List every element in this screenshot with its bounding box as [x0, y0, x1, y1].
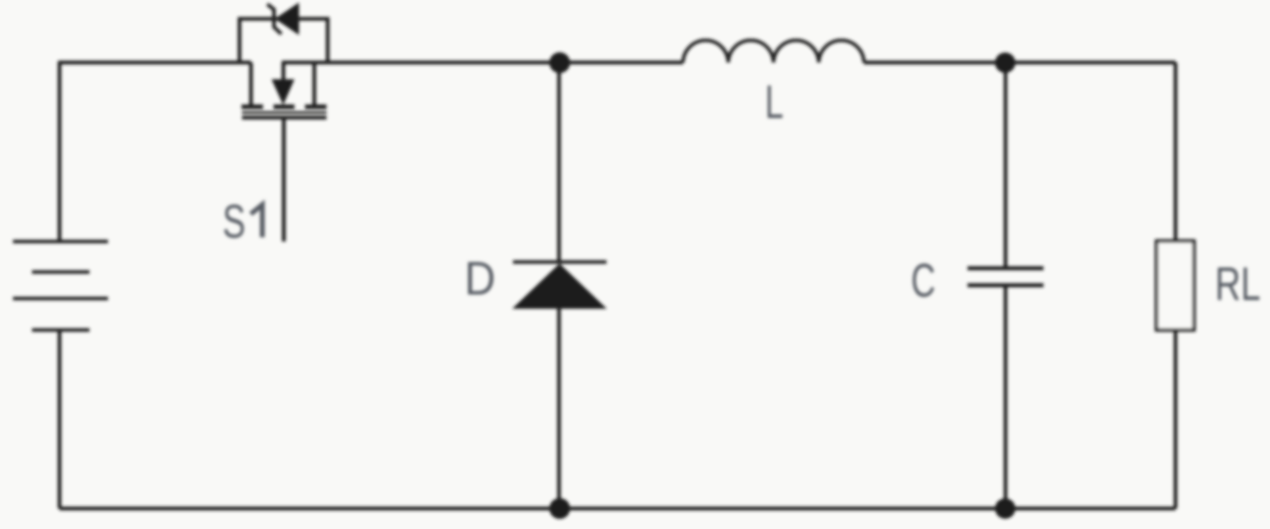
body diode D1 cathode bar	[267, 4, 281, 34]
body diode D1 triangle	[275, 3, 299, 36]
transistor Q1 drain stub	[249, 63, 253, 106]
resistor RL bottom lead wire	[1174, 330, 1178, 509]
resistor RL top lead wire	[1174, 63, 1178, 242]
battery V1 left lead wire	[58, 63, 62, 242]
inductor L coils	[683, 40, 864, 62]
node junction dot top right	[995, 53, 1015, 73]
svg-text:D: D	[465, 252, 496, 305]
body diode branch wire	[240, 19, 328, 63]
transistor Q1 contact bars	[242, 105, 327, 110]
battery V1 bottom lead wire	[58, 330, 62, 509]
transistor Q1 body lead wire	[282, 63, 286, 81]
node junction dot bottom right	[995, 498, 1015, 518]
transistor Q1 gate plate	[242, 116, 327, 120]
resistor RL body	[1157, 241, 1195, 330]
capacitor C plates	[968, 268, 1044, 285]
transistor Q1 source stub	[312, 63, 316, 106]
wire bottom rail	[60, 507, 1176, 511]
capacitor C bottom lead wire	[1004, 286, 1008, 509]
battery V1 plates	[13, 242, 108, 331]
diode D cathode bar	[513, 260, 607, 263]
diode D bottom lead wire	[557, 308, 561, 509]
transistor Q1 body arrow	[272, 79, 295, 105]
diode D triangle	[512, 264, 607, 309]
svg-text:C: C	[911, 254, 936, 307]
capacitor C top lead wire	[1004, 63, 1008, 269]
diode D top lead wire	[557, 63, 561, 263]
node junction dot top left	[549, 52, 570, 73]
transistor Q1 channel thin line	[242, 111, 327, 113]
wire top rail right segment	[282, 61, 683, 65]
wire top rail far right segment	[864, 61, 1176, 65]
svg-text:RL: RL	[1215, 257, 1261, 310]
svg-text:S: S	[223, 195, 246, 248]
wire top rail left segment	[58, 61, 251, 65]
transistor Q1 gate lead wire	[282, 119, 286, 242]
node junction dot bottom left	[549, 498, 570, 519]
svg-text:L: L	[765, 75, 784, 128]
